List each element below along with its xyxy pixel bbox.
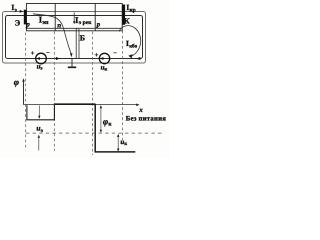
svg-text:э рек: э рек <box>79 20 92 26</box>
svg-text:Э: Э <box>15 18 21 27</box>
svg-text:к: к <box>104 68 107 73</box>
no-supply potential level (dashed horizontal) <box>26 132 163 134</box>
potential curve: collector step and bottom level (thick) <box>95 104 135 152</box>
emitter metal contact bar <box>24 10 27 25</box>
plus sign of u_e <box>31 51 34 54</box>
svg-text:к: к <box>108 122 112 128</box>
voltage source u_k (circle) <box>99 53 109 63</box>
u_e measuring arrow below (up, toward no-supply level) <box>38 135 40 151</box>
recombination current arrow (down, in base) <box>73 13 76 25</box>
inner flow line along structure bottom <box>26 27 122 29</box>
x axis (horizontal) with arrow <box>24 104 140 107</box>
u_e measuring arrow inside well (down) <box>38 106 40 119</box>
svg-text:φ: φ <box>14 77 19 87</box>
ground symbol at base node <box>68 59 76 68</box>
minus sign of u_k <box>114 52 117 54</box>
svg-text:к: к <box>124 142 127 147</box>
wire: outer circuit loop (gray, emitter-collector external wire) <box>3 12 146 64</box>
svg-text:p: p <box>25 20 30 29</box>
svg-text:э: э <box>40 67 42 72</box>
dashed projection line x=122.5 (collector contact) <box>122 26 124 142</box>
transistor structure box (p-n-p bar) <box>26 4 122 31</box>
base lead (double line) <box>76 28 79 58</box>
svg-text:p: p <box>96 20 101 28</box>
hole-injection flow curve I_ep through base down to base wire <box>33 14 73 57</box>
current direction arrow on bottom wire (left-pointing, near right corner) <box>137 57 141 60</box>
phi_k measuring double arrow <box>100 105 102 133</box>
dashed projection line x=54.3 (EB junction) <box>53 32 55 152</box>
I_e arrow into emitter (on top-left wire) <box>20 10 24 13</box>
I_kbo circulation loop arc with arrowhead <box>119 26 140 59</box>
svg-text:Б: Б <box>80 33 85 42</box>
voltage source u_e (circle) <box>36 53 47 64</box>
u_k measuring double arrow <box>117 134 119 152</box>
svg-text:n: n <box>57 22 61 30</box>
svg-text:эп: эп <box>42 20 49 26</box>
minus sign of u_e <box>47 52 50 54</box>
plus sign of u_k <box>95 53 98 56</box>
collector metal contact bar <box>122 5 125 25</box>
svg-text:x: x <box>138 106 143 114</box>
svg-text:э: э <box>15 8 18 14</box>
potential curve: emitter well <box>27 105 55 120</box>
phi axis (vertical) with arrow <box>22 78 25 105</box>
dashed projection line x=92.5 (CB junction) <box>92 32 94 156</box>
current direction arrow on bottom wire (right-pointing, after u_e) <box>56 57 60 60</box>
potential curve: base level (thick) <box>54 103 95 105</box>
svg-text:э: э <box>41 128 44 134</box>
svg-text:Без питания: Без питания <box>126 116 166 123</box>
collector-base junction line <box>94 4 96 31</box>
svg-text:кр: кр <box>130 8 136 14</box>
svg-text:φ: φ <box>103 116 108 126</box>
emitter-base junction line <box>54 4 56 31</box>
wire: inner current-flow loop (dark) <box>6 16 143 59</box>
svg-text:К: К <box>124 17 130 26</box>
dashed projection line x=25.7 (emitter contact) <box>25 33 27 151</box>
svg-text:кбо: кбо <box>129 43 137 49</box>
